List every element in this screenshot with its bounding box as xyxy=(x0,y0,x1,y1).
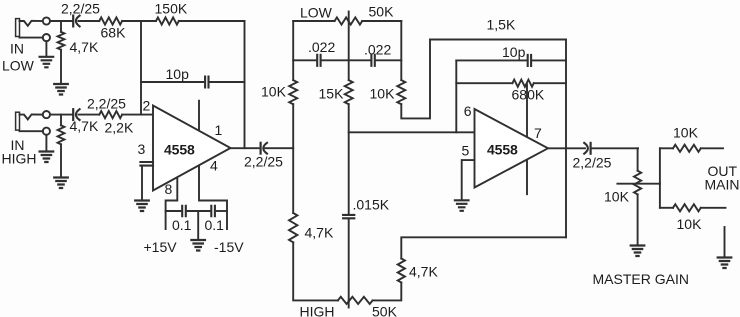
svg-text:MASTER GAIN: MASTER GAIN xyxy=(593,271,689,287)
svg-text:6: 6 xyxy=(464,103,472,119)
capacitor C4 (pin 3 bypass) xyxy=(140,162,153,166)
wire P2 right end up xyxy=(373,283,402,301)
wire ch2 input line xyxy=(50,114,73,116)
potentiometer P1 LOW 50K xyxy=(335,17,363,24)
wire output ground stem xyxy=(724,227,726,257)
resistor R6 15K xyxy=(345,80,353,104)
wire jack J1 sleeve to ground xyxy=(45,41,47,56)
resistor R4 4,7K (ch2 shunt) xyxy=(60,115,62,126)
svg-text:10K: 10K xyxy=(370,86,396,102)
wire pin 6 bus xyxy=(455,60,457,132)
svg-text:2,2/25: 2,2/25 xyxy=(573,155,612,171)
resistor R3 2,2K xyxy=(99,111,122,118)
ground P3 xyxy=(631,246,645,257)
wire out branch bus xyxy=(659,148,661,208)
wire pin 6 line xyxy=(349,131,475,133)
svg-text:10K: 10K xyxy=(261,84,287,100)
input jack J2 (IN HIGH) xyxy=(16,112,20,130)
resistor R2 4,7K (ch1 shunt) xyxy=(60,21,62,32)
capacitor C10 .015K xyxy=(343,215,354,218)
wire pin 4 lead upper (U1) xyxy=(198,101,200,130)
op-amp U2 4558 xyxy=(475,109,549,188)
resistor R8 4,7K (bus left lower) xyxy=(289,213,297,242)
svg-text:4558: 4558 xyxy=(487,142,518,158)
wire P3 wiper xyxy=(617,183,660,185)
svg-text:10K: 10K xyxy=(677,216,703,232)
svg-text:2,2/25: 2,2/25 xyxy=(61,1,100,17)
resistor R7 10K xyxy=(397,80,405,104)
svg-text:IN: IN xyxy=(10,41,24,57)
svg-text:4: 4 xyxy=(210,158,218,174)
resistor R9 4,7K (treble leg) xyxy=(398,259,405,283)
svg-text:4,7K: 4,7K xyxy=(70,118,99,134)
wire 1,5K feedback line xyxy=(430,39,566,41)
wire op1 output xyxy=(231,147,294,149)
wire .022 line left xyxy=(293,59,349,61)
wire center bus lower xyxy=(348,220,350,300)
svg-text:.022: .022 xyxy=(364,42,391,58)
wire ch1 input line xyxy=(50,20,73,22)
svg-text:680K: 680K xyxy=(512,87,545,103)
svg-text:15K: 15K xyxy=(319,86,345,102)
wire P3 bottom to ground xyxy=(637,194,639,245)
wire C4 to ground xyxy=(141,166,143,200)
svg-text:3: 3 xyxy=(138,141,146,157)
capacitor C7 2,2/25 (electrolytic) xyxy=(260,143,262,154)
svg-text:10K: 10K xyxy=(604,189,630,205)
wire jack J1 sleeve xyxy=(20,37,43,39)
resistor R1 68K xyxy=(99,17,122,24)
svg-text:10p: 10p xyxy=(502,44,526,60)
svg-text:2,2/25: 2,2/25 xyxy=(87,96,126,112)
wire pin 5 to ground xyxy=(462,160,475,200)
capacitor C5 0.1 xyxy=(182,206,186,216)
svg-text:MAIN: MAIN xyxy=(705,177,740,193)
svg-text:5: 5 xyxy=(462,143,470,159)
wire center rail to ground xyxy=(197,211,199,240)
wire output bus op1 xyxy=(244,21,246,148)
resistor R12 10K (out bottom) xyxy=(673,204,701,211)
ground output xyxy=(718,258,732,269)
ground R2 xyxy=(54,84,68,95)
wire .022 line right xyxy=(349,59,402,61)
wire feedback bus right xyxy=(565,40,567,238)
svg-text:HIGH: HIGH xyxy=(2,151,37,167)
svg-text:4,7K: 4,7K xyxy=(70,39,99,55)
capacitor C11 10p xyxy=(528,55,531,66)
wire R8 to HIGH pot xyxy=(293,242,338,300)
svg-text:4558: 4558 xyxy=(164,141,195,157)
wire 680K line right xyxy=(534,82,566,84)
svg-text:50K: 50K xyxy=(369,4,395,20)
svg-text:LOW: LOW xyxy=(300,5,333,21)
wire R11 to OUT xyxy=(701,147,723,149)
wire rail right xyxy=(217,210,227,212)
svg-text:.022: .022 xyxy=(308,39,335,55)
svg-text:8: 8 xyxy=(165,181,173,197)
svg-text:50K: 50K xyxy=(372,304,398,317)
wire 10p feedback xyxy=(141,81,245,83)
capacitor C6 0.1 xyxy=(211,206,215,216)
resistor R5 150K xyxy=(156,17,179,24)
wire pin 7 lead upper (U2) xyxy=(526,85,528,138)
wire R3 to pin 2 xyxy=(122,114,153,116)
wire supply rail left xyxy=(166,210,181,212)
potentiometer P2 HIGH 50K xyxy=(338,297,373,304)
wire bottom out branch xyxy=(660,207,673,209)
svg-text:+15V: +15V xyxy=(144,239,178,255)
potentiometer P3 MASTER GAIN 10K xyxy=(634,171,641,195)
capacitor C3 10p xyxy=(205,77,208,88)
resistor R13 10K (bus left) xyxy=(289,80,297,104)
wire R9 to feedback line xyxy=(401,237,566,258)
svg-text:1,5K: 1,5K xyxy=(487,17,516,33)
svg-text:2,2K: 2,2K xyxy=(105,120,134,136)
wire 680K line left xyxy=(456,82,512,84)
svg-text:10K: 10K xyxy=(673,125,699,141)
capacitor C2 2,2/25 (electrolytic) xyxy=(72,109,74,120)
ground supply xyxy=(191,240,205,251)
wire center bus mid xyxy=(348,104,350,213)
svg-text:7: 7 xyxy=(534,125,542,141)
resistor R11 10K (out top) xyxy=(673,145,701,152)
capacitor C9 .022 xyxy=(371,55,374,66)
wire R12 right end xyxy=(701,207,726,209)
wire P2 wiper stub xyxy=(348,300,350,307)
svg-text:2,2/25: 2,2/25 xyxy=(244,154,283,170)
svg-text:2: 2 xyxy=(143,98,151,114)
ground jack J2 xyxy=(40,152,54,163)
capacitor C12 2,2/25 (electrolytic) xyxy=(589,143,591,154)
wire jack J2 sleeve xyxy=(20,130,43,132)
ground R4 xyxy=(54,178,68,189)
svg-text:150K: 150K xyxy=(155,1,188,17)
wire R5 to output bus xyxy=(179,20,245,22)
svg-text:10p: 10p xyxy=(166,66,190,82)
ground pin 3 xyxy=(135,201,149,212)
wire center bus (P1 wiper down) xyxy=(348,21,350,80)
capacitor C1 2,2/25 (electrolytic) xyxy=(72,16,74,27)
resistor R10 680K xyxy=(512,80,533,87)
svg-text:0.1: 0.1 xyxy=(205,217,225,233)
wire pin 7 lead lower (U2) xyxy=(526,161,528,195)
svg-text:-15V: -15V xyxy=(214,239,244,255)
wire 10p feedback line (U2) xyxy=(456,59,566,61)
wire LOW pot line xyxy=(293,20,334,22)
wire top out branch xyxy=(660,147,673,149)
wire right bus to 1,5K line xyxy=(401,40,430,119)
wire P1 right end xyxy=(362,20,401,22)
wire output to P3 top xyxy=(637,148,639,170)
capacitor C8 .022 xyxy=(317,55,320,66)
wire tone bus left mid xyxy=(292,104,294,213)
wire 150K feedback top xyxy=(141,20,156,22)
wire P1 wiper stub xyxy=(348,12,350,22)
svg-text:4,7K: 4,7K xyxy=(305,225,334,241)
wire pin 4 lead to -15V rail xyxy=(199,166,227,229)
svg-text:LOW: LOW xyxy=(2,58,35,74)
ground jack J1 xyxy=(40,57,54,68)
input jack J1 (IN LOW) xyxy=(16,19,20,37)
wire op2 output xyxy=(548,147,638,149)
wire summing bus (node A) xyxy=(140,21,142,115)
wire R1 to summing node xyxy=(122,20,141,22)
ground pin 5 xyxy=(455,200,469,211)
wire tone bus left upper xyxy=(292,21,294,80)
svg-text:1: 1 xyxy=(215,122,223,138)
svg-text:0.1: 0.1 xyxy=(172,217,192,233)
wire rail center xyxy=(188,210,210,212)
wire C2 to R3 xyxy=(78,114,99,116)
svg-text:.015K: .015K xyxy=(353,197,390,213)
wire C1 to R1 xyxy=(78,20,99,22)
wire pin 8 lead to +15V rail xyxy=(166,178,178,230)
svg-text:4,7K: 4,7K xyxy=(409,264,438,280)
wire jack J2 sleeve to ground xyxy=(45,135,47,151)
svg-text:HIGH: HIGH xyxy=(300,304,335,317)
wire right bus top xyxy=(400,21,402,80)
svg-text:68K: 68K xyxy=(101,25,127,41)
op-amp U1 4558 xyxy=(153,106,231,191)
